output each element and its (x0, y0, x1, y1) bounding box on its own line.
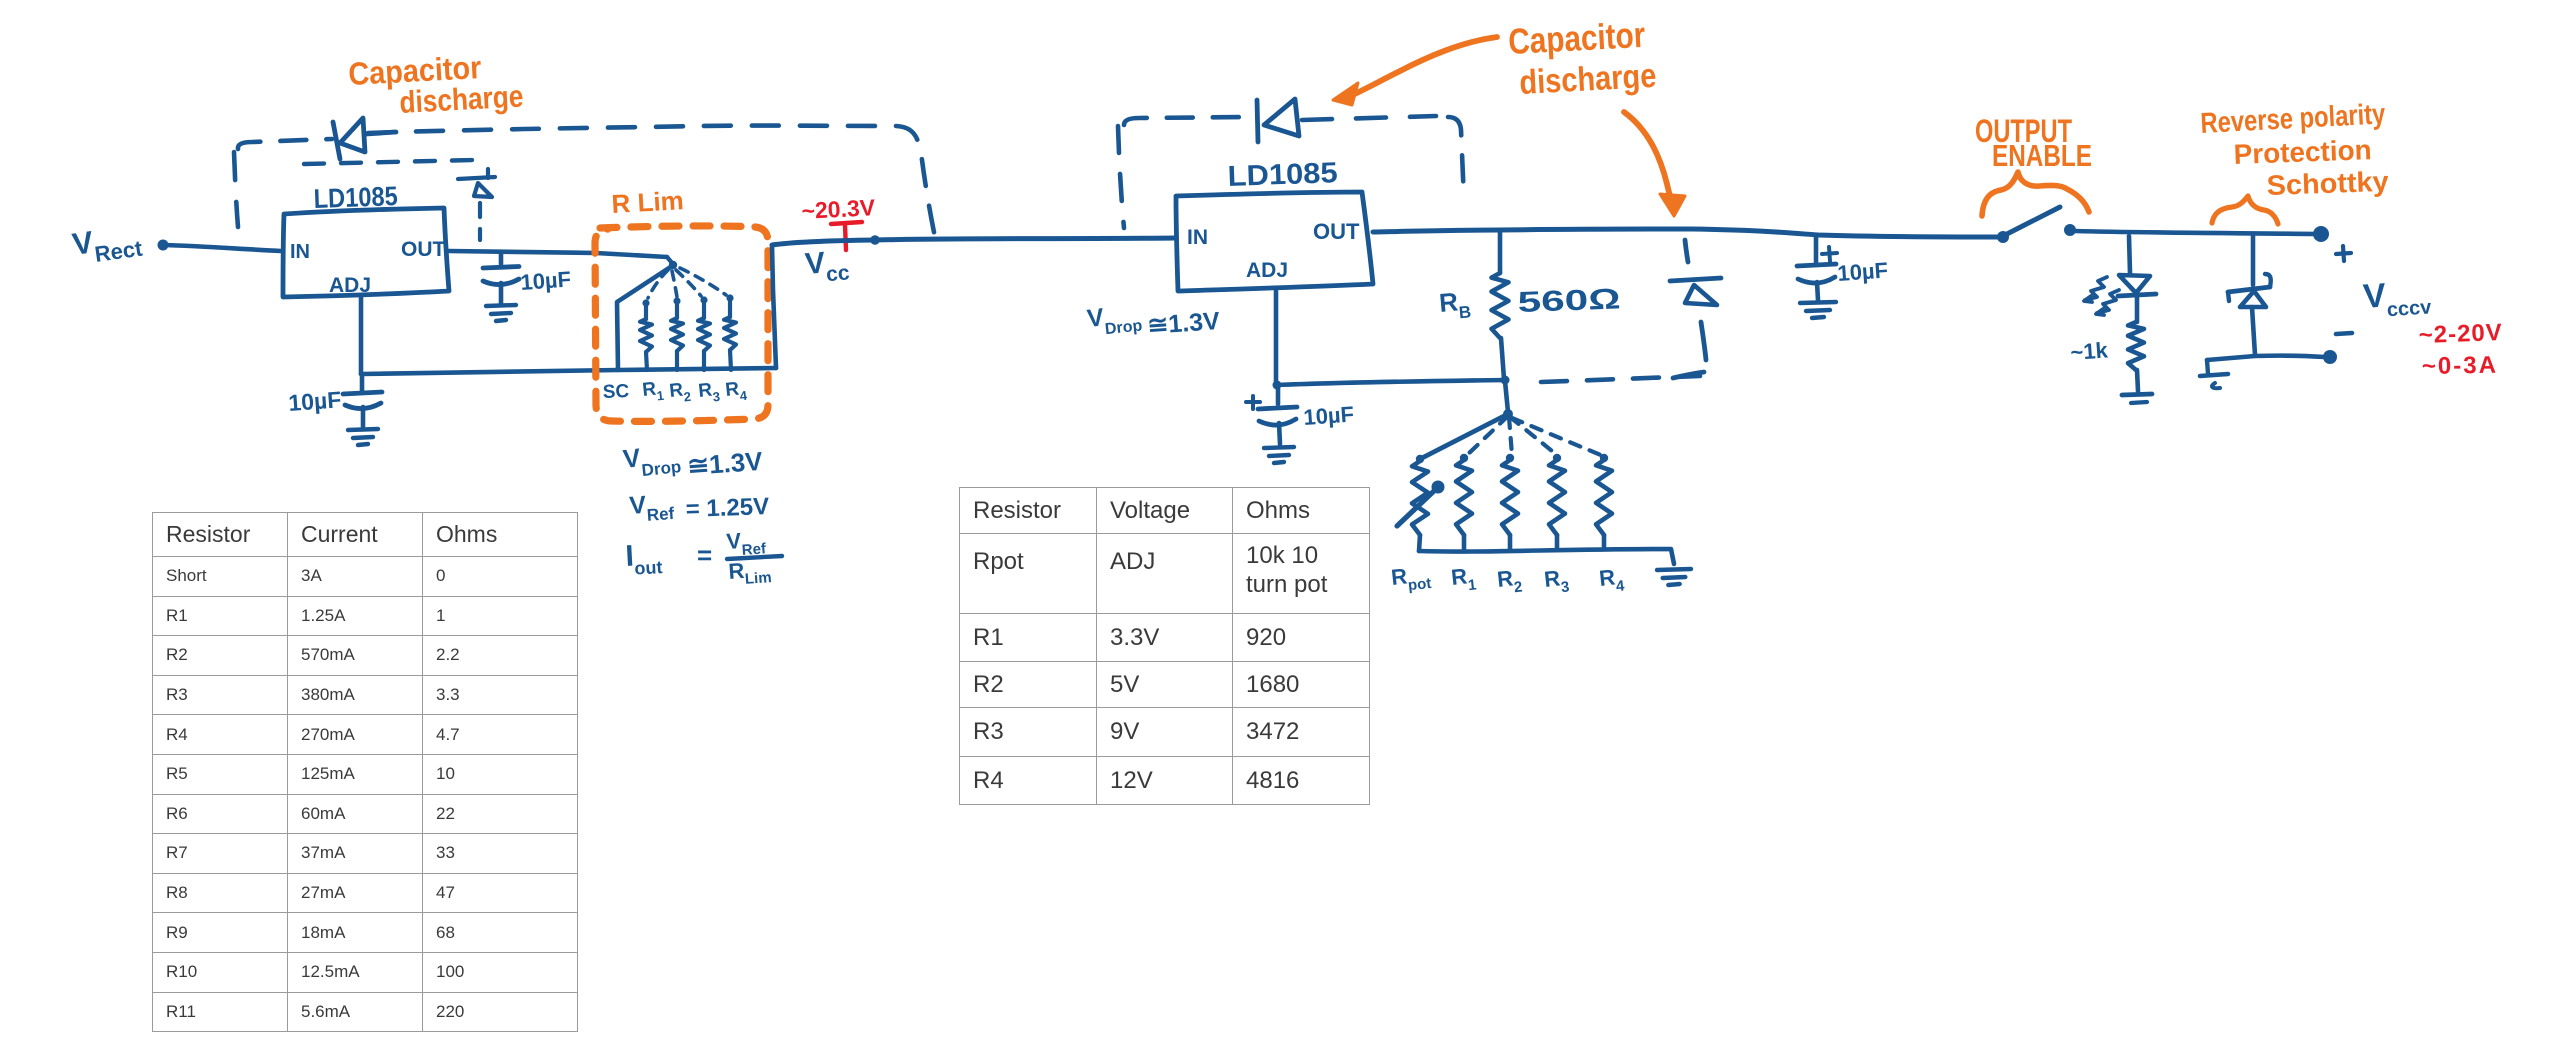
svg-text:~20.3V: ~20.3V (801, 194, 876, 224)
node output positive terminal (2313, 226, 2351, 261)
svg-text:Capacitor: Capacitor (1507, 14, 1646, 62)
ground output bank (1657, 569, 1691, 585)
arrow discharge to D3 (1333, 37, 1497, 105)
svg-text:~0-3A: ~0-3A (2422, 352, 2499, 380)
svg-text:R4: R4 (724, 378, 748, 405)
LED indicator branch (2070, 236, 2156, 403)
capacitor C2 10uF (288, 375, 382, 445)
wire Vcc to U2 IN (772, 238, 1174, 245)
reverse polarity label (2200, 98, 2390, 201)
svg-text:VDrop: VDrop (1086, 299, 1144, 339)
capacitor C3 10uF polarized (1246, 386, 1355, 463)
svg-text:IN: IN (290, 241, 310, 263)
svg-text:560Ω: 560Ω (1517, 283, 1621, 319)
svg-text:R1: R1 (641, 378, 664, 405)
arrow discharge to D4 (1624, 112, 1685, 216)
wire U1 ADJ down (359, 297, 364, 374)
output range annotation (red) (2418, 319, 2503, 380)
svg-text:R2: R2 (668, 379, 691, 406)
svg-text:10µF: 10µF (1303, 402, 1355, 430)
svg-text:R3: R3 (697, 379, 720, 406)
resistor R1 (output bank) (1456, 454, 1472, 551)
svg-text:Iout: Iout (625, 538, 663, 579)
dashed inner line to D2 (304, 160, 473, 164)
node VRect input label (70, 218, 144, 270)
wire ADJ bottom rail to RLim (361, 368, 776, 374)
svg-text:RB: RB (1438, 285, 1472, 324)
table resistor/current/ohms (152, 512, 578, 1032)
svg-text:ADJ: ADJ (329, 274, 371, 297)
svg-text:IN: IN (1187, 226, 1208, 249)
svg-text:~1k: ~1k (2070, 337, 2110, 365)
node Vcc junction (870, 235, 880, 245)
capacitor C4 10uF output (1797, 237, 1889, 318)
svg-text:ENABLE: ENABLE (1992, 138, 2092, 173)
VDrop VRef Iout formulas (621, 438, 782, 589)
capacitor discharge label 2 (1507, 14, 1657, 102)
resistor R1 (RLim bank) (640, 299, 652, 370)
svg-text:discharge: discharge (399, 79, 525, 120)
svg-text:discharge: discharge (1518, 57, 1657, 102)
svg-text:R4: R4 (1598, 564, 1626, 597)
resistor RB 560ohm (1438, 230, 1621, 379)
wire U2 OUT to output (1373, 229, 2000, 237)
wire U1 OUT to RLim (449, 251, 667, 257)
svg-text:VRect: VRect (70, 218, 144, 270)
svg-text:Vcccv: Vcccv (2362, 273, 2433, 323)
regulator U1 LD1085 body (283, 181, 449, 297)
dashed selector fan output bank (1466, 416, 1603, 456)
regulator U2 LD1085 body (1176, 157, 1373, 291)
ground output bottom (2200, 360, 2228, 388)
capacitor C1 10uF (483, 252, 572, 321)
svg-text:= 1.25V: = 1.25V (685, 493, 769, 523)
dashed discharge loop 2 (1118, 116, 1464, 228)
node Vcc voltage marker (red) (801, 194, 876, 250)
diode D4 schottky (discharge) (1670, 278, 1721, 305)
wire fan to Rpot (1422, 414, 1508, 458)
svg-text:R2: R2 (1496, 565, 1523, 598)
svg-text:OUT: OUT (1313, 219, 1360, 244)
diode D1 (capacitor discharge loop 1) (333, 118, 396, 159)
node fan junction (1503, 409, 1513, 419)
svg-text:LD1085: LD1085 (313, 181, 398, 214)
svg-text:≅1.3V: ≅1.3V (686, 446, 764, 481)
wire RLim right side up to Vcc (772, 245, 776, 368)
svg-text:10µF: 10µF (1837, 258, 1889, 286)
node Vcc label (804, 244, 851, 288)
potentiometer Rpot (1397, 455, 1445, 551)
node RB bottom junction (1501, 376, 1510, 385)
wire VRect to U1 IN (165, 245, 281, 251)
svg-text:~2-20V: ~2-20V (2418, 319, 2503, 349)
diode D3 (capacitor discharge loop 2) (1257, 99, 1299, 142)
resistor R4 (RLim bank) (724, 294, 736, 370)
dashed selector fan RLim (648, 268, 726, 298)
svg-text:OUT: OUT (401, 238, 446, 261)
node RLim top junction (667, 257, 677, 269)
wire switch to output (2075, 231, 2315, 234)
dashed discharge path output (1541, 240, 1706, 382)
svg-text:Protection: Protection (2233, 134, 2372, 170)
wire output bank bottom rail (1419, 549, 1674, 564)
node Vcccv label (2362, 273, 2433, 323)
node ADJ junction (1273, 381, 1282, 390)
svg-text:Schottky: Schottky (2266, 166, 2389, 201)
svg-text:≅1.3V: ≅1.3V (1146, 307, 1220, 340)
svg-text:=: = (697, 540, 712, 570)
resistor R2 (output bank) (1502, 454, 1518, 550)
OUTPUT ENABLE label (1975, 113, 2092, 173)
svg-text:Vcc: Vcc (804, 244, 851, 288)
resistor R3 (RLim bank) (698, 296, 710, 370)
svg-text:RLim: RLim (728, 556, 773, 589)
resistor R2 (RLim bank) (671, 297, 683, 370)
svg-text:R1: R1 (1450, 563, 1477, 596)
table resistor/voltage/ohms (959, 487, 1370, 805)
svg-text:10µF: 10µF (288, 386, 343, 416)
RLim label (611, 185, 685, 219)
svg-text:R Lim: R Lim (611, 185, 685, 219)
diode D2 (small, to OUT) (458, 169, 495, 240)
wire output bottom (2207, 356, 2325, 360)
svg-text:VRef: VRef (628, 489, 675, 526)
node VRect terminal (158, 240, 169, 251)
resistor R4 (output bank) (1596, 454, 1612, 549)
svg-text:ADJ: ADJ (1246, 259, 1288, 282)
svg-text:VDrop: VDrop (621, 438, 682, 482)
wire SC short branch (617, 266, 672, 370)
wire U2 ADJ down (1274, 291, 1279, 383)
node output negative terminal (2323, 333, 2352, 364)
switch output enable (1997, 207, 2076, 243)
svg-text:VRef: VRef (726, 526, 768, 560)
VDrop annotation U2 (1086, 299, 1221, 340)
RLim branch labels SC R1 R2 R3 R4 (602, 378, 748, 406)
labels Rpot R1 R2 R3 R4 (1390, 561, 1626, 598)
resistor R3 (output bank) (1549, 454, 1565, 550)
RLim orange dashed box (595, 226, 768, 421)
brace output enable (1982, 172, 2089, 216)
svg-text:LD1085: LD1085 (1227, 157, 1338, 193)
svg-text:Rpot: Rpot (1390, 561, 1432, 596)
svg-text:SC: SC (602, 381, 629, 403)
dashed discharge loop 1 left/top (234, 126, 935, 237)
wire RB node to fan node (1505, 381, 1508, 412)
wire ADJ to RB bottom (1277, 380, 1504, 385)
brace reverse polarity (2212, 196, 2278, 224)
capacitor discharge label 1 (347, 49, 524, 120)
diode D5 schottky output (2228, 236, 2271, 355)
svg-text:R3: R3 (1543, 565, 1570, 598)
svg-text:10µF: 10µF (520, 267, 572, 295)
